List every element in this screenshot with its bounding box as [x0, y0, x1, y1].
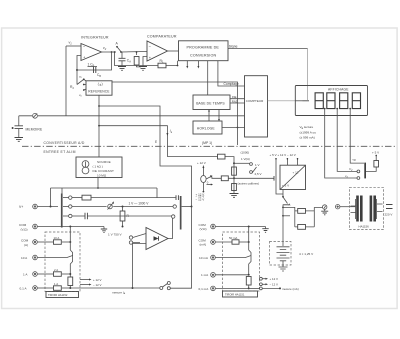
wire autres calibres — [234, 177, 274, 179]
op-amp output wire — [168, 218, 173, 239]
connector bar input — [61, 194, 63, 228]
resistor R1 feedback line — [115, 52, 178, 66]
op-amp U1 integrateur — [81, 44, 102, 61]
mains 220V — [386, 205, 393, 209]
svg-text:REFERENCE: REFERENCE — [88, 90, 110, 94]
wire mesure mA — [262, 287, 280, 289]
svg-text:+ 12 V: + 12 V — [270, 277, 279, 281]
node on output — [111, 51, 113, 53]
wire horloge to compteur — [222, 127, 245, 129]
op-amp U2 comparateur — [147, 41, 168, 61]
svg-text:10 A: 10 A — [54, 236, 60, 240]
switch cal 1V 2.5V — [234, 162, 250, 164]
svg-text:1 V(Ω): 1 V(Ω) — [241, 157, 250, 161]
svg-text:RAZ: RAZ — [232, 99, 238, 103]
wire L2 with current Ia — [99, 126, 167, 157]
earth mid — [265, 227, 267, 229]
dashed box tiroir HA1152 — [45, 232, 80, 292]
svg-text:(± 999 mA): (± 999 mA) — [300, 136, 315, 140]
row2 end contact — [173, 205, 176, 208]
node dots cal bus — [233, 162, 235, 164]
svg-text:PROGRAMME DE: PROGRAMME DE — [187, 46, 220, 50]
source de courant box — [76, 157, 122, 178]
svg-text:mesure (mA): mesure (mA) — [282, 287, 299, 291]
transformer dashed box — [349, 187, 383, 229]
svg-text:TIROIR HA1151: TIROIR HA1151 — [225, 293, 245, 297]
op-amp U3 buffer — [146, 228, 168, 250]
resistor charge 1 — [298, 209, 306, 214]
svg-text:CONVERTISSEUR A/D: CONVERTISSEUR A/D — [44, 141, 85, 145]
horloge box — [193, 121, 222, 134]
svg-text:MEMOIRE: MEMOIRE — [26, 128, 43, 132]
shunt resistor vertical — [68, 277, 73, 286]
svg-text:(mA): (mA) — [200, 243, 207, 247]
wire signe down to display — [307, 48, 309, 100]
svg-text:0,1 A: 0,1 A — [20, 286, 28, 290]
dashed box tiroir HA1151 — [223, 232, 260, 291]
row1 to connector ticks — [157, 197, 176, 199]
resistor cal series — [218, 154, 226, 159]
capacitor CB feedback — [77, 52, 112, 70]
svg-text:− 12 V: − 12 V — [196, 195, 205, 199]
pot wiper arrow — [206, 177, 211, 180]
svg-text:AFFICHAGE: AFFICHAGE — [328, 88, 349, 92]
charge resistors branch — [283, 207, 322, 227]
transformer windings — [351, 199, 357, 219]
resistor pot series — [221, 176, 228, 181]
earth on COM wire — [103, 227, 105, 230]
svg-text:1 V — 1000 V: 1 V — 1000 V — [129, 202, 150, 206]
ground under CA — [118, 67, 126, 71]
+5V rail down — [276, 161, 283, 195]
ground cal bus — [230, 194, 239, 198]
op-amp inputs — [133, 234, 147, 289]
svg-text:10 MΩ: 10 MΩ — [97, 174, 107, 178]
battery ground — [279, 267, 288, 271]
ground memoire — [15, 138, 24, 142]
wire source output — [97, 178, 99, 189]
display digit 1 — [315, 93, 323, 109]
mA range resistor vertical — [246, 277, 251, 286]
svg-text:1 mA: 1 mA — [201, 273, 209, 277]
svg-text:COM: COM — [21, 239, 29, 243]
connector bar 2 — [180, 196, 182, 230]
row2 trimmer — [72, 206, 107, 208]
svg-text:4 × 1,25 V: 4 × 1,25 V — [299, 252, 314, 256]
wires base-horloge — [209, 110, 219, 122]
svg-text:10 A: 10 A — [21, 256, 28, 260]
contact circles on bar — [69, 196, 72, 199]
svg-text:(±1999 A ou: (±1999 A ou — [300, 130, 317, 134]
wire v1 to inverting input — [66, 45, 81, 47]
programme bottom pins — [187, 61, 198, 67]
svg-text:1 V 750 V: 1 V 750 V — [108, 232, 123, 236]
selector wiper bar — [364, 163, 366, 179]
wire reference down rail — [98, 95, 100, 157]
svg-text:− 12 V: − 12 V — [93, 283, 102, 287]
terminal earth mains — [323, 205, 327, 209]
svg-text:+ 12 V: + 12 V — [93, 278, 102, 282]
svg-text:0,1 mA: 0,1 mA — [199, 287, 210, 291]
mA bus vertical — [249, 227, 251, 275]
svg-text:INTEGRATEUR: INTEGRATEUR — [81, 36, 109, 40]
shunt bus vertical — [70, 227, 72, 278]
wire comptage — [218, 61, 245, 86]
row3 capacitor — [72, 215, 85, 217]
node junction feedback — [76, 69, 78, 71]
wire integrator output v2 — [102, 51, 148, 54]
HA1151 contacts — [260, 277, 263, 280]
reference box — [86, 81, 112, 95]
svg-text:( 1 kΩ ): ( 1 kΩ ) — [93, 165, 103, 169]
display digit 2 — [327, 93, 335, 109]
wire left rail — [65, 46, 67, 116]
svg-text:− 12 V: − 12 V — [270, 283, 279, 287]
dc-dc converter box — [280, 165, 306, 189]
svg-text:+ 12: + 12 — [293, 171, 299, 175]
svg-text:COM: COM — [199, 238, 207, 242]
svg-text:(1000): (1000) — [241, 151, 250, 155]
base de temps box — [193, 95, 230, 110]
display digit 3 — [340, 93, 348, 109]
svg-text:TIROIR HA1152: TIROIR HA1152 — [48, 293, 68, 297]
svg-text:HORLOGE: HORLOGE — [197, 127, 216, 131]
compteur box — [245, 76, 268, 137]
svg-text:BASE DE TEMPS: BASE DE TEMPS — [196, 101, 225, 105]
capacitor CA — [121, 52, 123, 58]
long wire L1 from reference rail — [99, 106, 192, 207]
row3 end contact — [172, 215, 175, 218]
minus sign digit — [303, 100, 310, 102]
svg-text:Signe: Signe — [229, 44, 238, 48]
affichage box — [295, 86, 367, 116]
display digit 4 — [352, 93, 360, 109]
svg-text:HA1156: HA1156 — [359, 225, 370, 229]
programme de conversion box — [179, 41, 229, 61]
supply arrows HA1151 — [262, 278, 266, 280]
selector contacts — [357, 170, 360, 173]
battery feed wire — [282, 205, 284, 242]
svg-text:DE COURANT: DE COURANT — [93, 169, 114, 173]
memoire switch — [33, 113, 38, 118]
svg-text:1 V: 1 V — [255, 163, 260, 167]
svg-text:2,5 V: 2,5 V — [255, 172, 262, 176]
dashed section separator — [22, 145, 396, 147]
resistor cal bus upper — [232, 167, 237, 175]
svg-text:(autres calibres): (autres calibres) — [238, 182, 260, 186]
resistor cal bus lower — [232, 184, 237, 191]
wire compteur to affichage — [268, 100, 296, 102]
supply rail arrows — [276, 158, 298, 165]
resistor RA vertical — [136, 52, 138, 55]
wire L1 end into bar2 — [182, 206, 192, 208]
svg-text:COM: COM — [199, 223, 207, 227]
comparator + input ground — [143, 57, 147, 67]
svg-text:CONVERSION: CONVERSION — [190, 53, 216, 57]
switch IA — [160, 287, 163, 290]
svg-text:10 mA: 10 mA — [199, 256, 209, 260]
wire reference to counter rail — [112, 82, 238, 145]
svg-text:(A): (A) — [24, 243, 28, 247]
svg-text:SOURCE: SOURCE — [97, 160, 111, 164]
wire comparator output — [168, 50, 179, 52]
battery cells — [282, 242, 284, 247]
svg-text:COM: COM — [19, 223, 27, 227]
INE RAZ wires — [230, 99, 245, 103]
svg-text:220 V: 220 V — [385, 213, 393, 217]
svg-text:COMPARATEUR: COMPARATEUR — [147, 35, 177, 39]
wire top attenuator row — [51, 188, 158, 194]
svg-text:+ 12 V: + 12 V — [197, 161, 206, 165]
svg-text:V+: V+ — [19, 205, 23, 209]
row1 resistor — [72, 197, 82, 199]
switch A below dcdc — [282, 190, 284, 198]
svg-text:INE: INE — [232, 95, 237, 99]
wire cal feed — [167, 157, 234, 194]
svg-text:COMPTEUR: COMPTEUR — [246, 99, 264, 103]
zero arrow symbol — [207, 184, 212, 186]
wire to reference switch common — [76, 70, 78, 85]
svg-text:+ 5 V + 12 V − 12 V: + 5 V + 12 V − 12 V — [270, 153, 296, 157]
svg-text:+ 5 V: + 5 V — [372, 151, 379, 155]
svg-text:ENTREE ET ALIM: ENTREE ET ALIM — [44, 150, 76, 154]
memoire capacitor symbol — [18, 116, 20, 126]
svg-text:(MP 1): (MP 1) — [202, 141, 212, 145]
svg-text:E: E — [155, 140, 157, 144]
svg-text:(V,Ω): (V,Ω) — [200, 227, 207, 231]
supply arrows HA1152 — [80, 279, 90, 281]
terminal mains phase — [336, 205, 340, 209]
battery dashed box — [270, 242, 292, 266]
wire non-inverting input drop — [77, 56, 81, 71]
switch A on output — [116, 46, 118, 48]
svg-text:〈±〉: 〈±〉 — [96, 82, 106, 87]
divider resistor R — [122, 207, 124, 212]
wire mesure return rail — [191, 206, 193, 208]
wire mesure IA — [70, 287, 159, 289]
resistor charge 2 — [298, 225, 306, 230]
svg-text:+ 5 V: + 5 V — [282, 184, 289, 188]
digit bottom nodes — [324, 108, 326, 110]
signe output wire — [228, 47, 308, 49]
wires from display digits — [325, 109, 364, 178]
memoire line — [19, 115, 245, 117]
svg-text:(V,Ω): (V,Ω) — [21, 227, 28, 231]
Ia current arrow — [166, 133, 168, 136]
